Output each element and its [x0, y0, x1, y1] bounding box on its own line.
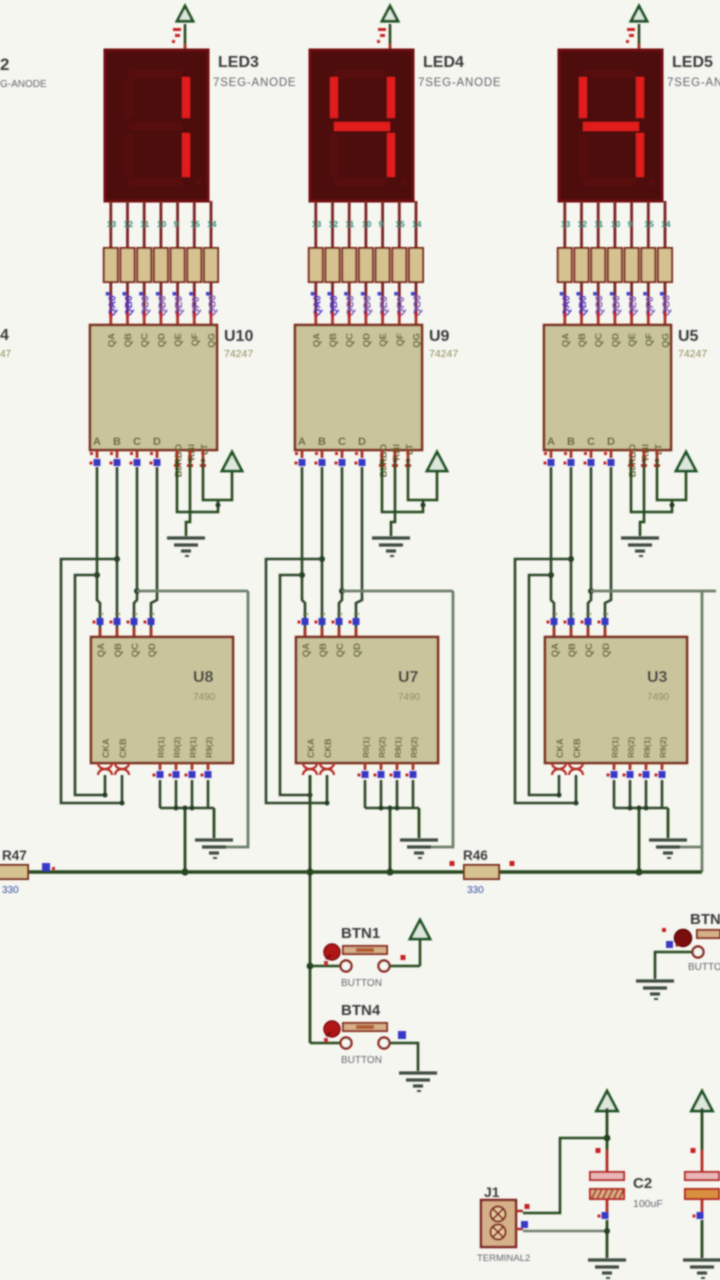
svg-text:LT: LT [200, 444, 211, 455]
svg-text:13: 13 [312, 219, 322, 229]
svg-text:QC: QC [345, 333, 356, 347]
svg-text:330: 330 [2, 885, 19, 896]
svg-text:RBI: RBI [392, 444, 403, 460]
svg-text:LT: LT [654, 444, 665, 455]
svg-text:QB: QB [577, 333, 588, 347]
svg-text:1: 1 [149, 612, 156, 616]
svg-text:R0(2): R0(2) [172, 737, 182, 758]
svg-text:QA: QA [560, 333, 571, 347]
svg-text:1: 1 [337, 612, 344, 616]
svg-text:CKA: CKA [306, 738, 316, 758]
svg-text:QB0: QB0 [124, 295, 135, 316]
svg-text:QB0: QB0 [329, 295, 340, 316]
svg-text:D: D [153, 436, 161, 448]
svg-text:QD: QD [610, 333, 621, 347]
svg-text:R9(1): R9(1) [188, 737, 198, 758]
svg-text:QE0: QE0 [379, 296, 390, 316]
svg-text:R47: R47 [2, 848, 27, 863]
svg-text:R0(1): R0(1) [361, 737, 371, 758]
svg-text:QD: QD [361, 333, 372, 347]
svg-text:QE: QE [378, 333, 389, 347]
svg-text:13: 13 [107, 219, 117, 229]
svg-text:QA: QA [301, 643, 312, 657]
svg-text:QC: QC [584, 643, 595, 657]
svg-text:1: 1 [603, 612, 610, 616]
svg-text:BUTTON: BUTTON [688, 962, 720, 973]
svg-text:QB: QB [318, 643, 329, 657]
svg-text:CKB: CKB [118, 738, 128, 758]
svg-text:R9(2): R9(2) [658, 737, 668, 758]
svg-text:QG: QG [412, 333, 423, 348]
svg-text:4: 4 [0, 327, 9, 344]
svg-text:QD: QD [601, 643, 612, 657]
svg-text:G-ANODE: G-ANODE [0, 79, 47, 90]
svg-text:QB: QB [567, 643, 578, 657]
svg-text:QC0: QC0 [346, 295, 357, 316]
svg-text:1: 1 [320, 612, 327, 616]
svg-text:1: 1 [569, 612, 576, 616]
svg-text:LT: LT [405, 444, 416, 455]
svg-text:9: 9 [174, 219, 179, 229]
svg-text:12: 12 [124, 219, 134, 229]
svg-text:LED5: LED5 [672, 54, 713, 71]
svg-text:7490: 7490 [398, 692, 421, 703]
svg-text:QG: QG [207, 333, 218, 348]
svg-text:100uF: 100uF [633, 1198, 663, 1210]
svg-text:QF0: QF0 [191, 296, 202, 316]
svg-text:74247: 74247 [678, 348, 707, 360]
svg-text:1: 1 [132, 612, 139, 616]
svg-text:CKA: CKA [101, 738, 111, 758]
svg-text:14: 14 [412, 219, 422, 229]
svg-text:QD: QD [156, 333, 167, 347]
svg-text:2: 2 [0, 55, 9, 74]
svg-text:1: 1 [303, 612, 310, 616]
svg-text:U5: U5 [678, 328, 699, 345]
svg-text:QG: QG [661, 333, 672, 348]
svg-text:R9(1): R9(1) [393, 737, 403, 758]
svg-text:74247: 74247 [224, 348, 253, 360]
svg-text:QF: QF [395, 333, 406, 346]
svg-text:A: A [93, 436, 101, 448]
svg-text:U10: U10 [224, 328, 253, 345]
svg-text:11: 11 [140, 219, 149, 229]
svg-text:7SEG-ANODE: 7SEG-ANODE [418, 77, 501, 89]
svg-text:C: C [587, 436, 595, 448]
svg-text:QA: QA [550, 643, 561, 657]
svg-text:QG0: QG0 [662, 294, 673, 316]
svg-text:A: A [298, 436, 306, 448]
svg-text:QB: QB [123, 333, 134, 347]
svg-text:C: C [133, 436, 141, 448]
svg-text:15: 15 [395, 219, 405, 229]
svg-text:U7: U7 [398, 669, 419, 686]
svg-text:QD: QD [147, 643, 158, 657]
svg-text:R46: R46 [463, 848, 488, 863]
svg-text:QE: QE [173, 333, 184, 347]
svg-text:B: B [113, 436, 121, 448]
svg-text:BUTTON: BUTTON [341, 978, 382, 989]
svg-text:7SEG-ANODE: 7SEG-ANODE [213, 77, 296, 89]
svg-text:QA0: QA0 [561, 295, 572, 316]
svg-text:QG0: QG0 [208, 294, 219, 316]
svg-text:7490: 7490 [647, 692, 670, 703]
svg-text:10: 10 [362, 219, 372, 229]
svg-text:13: 13 [561, 219, 571, 229]
svg-text:15: 15 [644, 219, 654, 229]
svg-text:BTN1: BTN1 [341, 925, 380, 942]
svg-text:1: 1 [98, 612, 105, 616]
svg-text:R0(1): R0(1) [610, 737, 620, 758]
svg-text:QF0: QF0 [396, 296, 407, 316]
svg-text:R0(2): R0(2) [377, 737, 387, 758]
svg-text:QC: QC [130, 643, 141, 657]
svg-text:QF0: QF0 [645, 296, 656, 316]
svg-text:1: 1 [552, 612, 559, 616]
svg-text:11: 11 [345, 219, 354, 229]
svg-text:74247: 74247 [429, 348, 458, 360]
svg-text:D: D [358, 436, 366, 448]
svg-text:QE: QE [627, 333, 638, 347]
svg-text:1: 1 [354, 612, 361, 616]
svg-text:QF: QF [190, 333, 201, 346]
svg-text:LED4: LED4 [423, 54, 464, 71]
svg-text:10: 10 [611, 219, 621, 229]
svg-text:15: 15 [190, 219, 200, 229]
svg-text:QB: QB [328, 333, 339, 347]
svg-text:QC: QC [140, 333, 151, 347]
svg-text:QD0: QD0 [157, 295, 168, 316]
svg-text:B: B [318, 436, 326, 448]
svg-text:U3: U3 [647, 669, 668, 686]
svg-text:J1: J1 [484, 1184, 500, 1200]
svg-text:10: 10 [157, 219, 167, 229]
svg-text:14: 14 [661, 219, 671, 229]
svg-text:9: 9 [628, 219, 633, 229]
svg-text:330: 330 [467, 885, 484, 896]
svg-text:QA0: QA0 [107, 295, 118, 316]
svg-text:R0(2): R0(2) [626, 737, 636, 758]
svg-text:1: 1 [586, 612, 593, 616]
svg-text:1: 1 [115, 612, 122, 616]
svg-text:47: 47 [0, 349, 12, 360]
svg-text:A: A [547, 436, 555, 448]
svg-text:QA: QA [96, 643, 107, 657]
svg-text:QE0: QE0 [628, 296, 639, 316]
svg-text:RBI: RBI [187, 444, 198, 460]
svg-text:QC0: QC0 [595, 295, 606, 316]
svg-text:QC: QC [594, 333, 605, 347]
svg-text:B: B [567, 436, 575, 448]
svg-text:12: 12 [329, 219, 339, 229]
svg-text:14: 14 [207, 219, 217, 229]
svg-text:BTN: BTN [690, 911, 720, 928]
svg-text:R9(1): R9(1) [642, 737, 652, 758]
svg-text:R9(2): R9(2) [204, 737, 214, 758]
svg-text:QB0: QB0 [578, 295, 589, 316]
svg-text:R0(1): R0(1) [156, 737, 166, 758]
svg-text:RBI: RBI [641, 444, 652, 460]
svg-text:C2: C2 [633, 1175, 652, 1192]
svg-text:QA: QA [106, 333, 117, 347]
svg-text:QA0: QA0 [312, 295, 323, 316]
svg-text:LED3: LED3 [218, 54, 259, 71]
svg-text:9: 9 [379, 219, 384, 229]
svg-text:QA: QA [311, 333, 322, 347]
svg-text:QD0: QD0 [362, 295, 373, 316]
svg-text:BUTTON: BUTTON [341, 1055, 382, 1066]
svg-text:U9: U9 [429, 328, 450, 345]
svg-text:BTN4: BTN4 [341, 1002, 381, 1019]
svg-text:R9(2): R9(2) [409, 737, 419, 758]
svg-text:QG0: QG0 [413, 294, 424, 316]
svg-text:CKB: CKB [323, 738, 333, 758]
svg-text:TERMINAL2: TERMINAL2 [477, 1253, 530, 1264]
svg-text:12: 12 [578, 219, 588, 229]
svg-text:U8: U8 [193, 669, 214, 686]
svg-text:CKB: CKB [572, 738, 582, 758]
svg-text:11: 11 [594, 219, 603, 229]
svg-text:7490: 7490 [193, 692, 216, 703]
svg-text:QB: QB [113, 643, 124, 657]
svg-text:CKA: CKA [555, 738, 565, 758]
svg-text:QF: QF [644, 333, 655, 346]
svg-text:7SEG-ANODE: 7SEG-ANODE [667, 77, 720, 89]
svg-text:QC0: QC0 [141, 295, 152, 316]
svg-text:QD0: QD0 [611, 295, 622, 316]
svg-text:QD: QD [352, 643, 363, 657]
svg-text:QC: QC [335, 643, 346, 657]
svg-text:C: C [338, 436, 346, 448]
svg-text:QE0: QE0 [174, 296, 185, 316]
svg-text:D: D [607, 436, 615, 448]
